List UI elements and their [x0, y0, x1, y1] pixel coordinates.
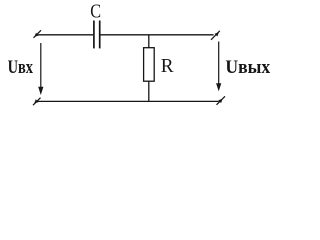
svg-text:R: R: [161, 56, 174, 77]
wire: bottom rail: [36, 100, 219, 102]
resistor R (rectangle body): [144, 48, 155, 81]
capacitor C (two vertical plates): [94, 21, 100, 49]
svg-text:Uвых: Uвых: [225, 57, 270, 78]
wire: top rail, right segment (capacitor to output terminal): [101, 34, 214, 36]
wire: top rail, left segment (input terminal to capacitor): [38, 34, 93, 36]
terminal arrow, top-left input: [34, 30, 42, 38]
terminal arrow, bottom-right output: [217, 96, 226, 105]
terminal arrow, bottom-left input: [33, 98, 41, 106]
svg-text:Uвх: Uвх: [8, 57, 34, 78]
voltage arrow Uвых (output, pointing down): [216, 42, 221, 92]
voltage arrow Uвх (input, pointing down): [38, 43, 43, 95]
wire: resistor top lead from top rail: [148, 35, 150, 48]
terminal arrow, top-right output: [211, 31, 220, 40]
svg-text:C: C: [90, 1, 101, 23]
wire: resistor bottom lead to bottom rail: [148, 81, 150, 101]
